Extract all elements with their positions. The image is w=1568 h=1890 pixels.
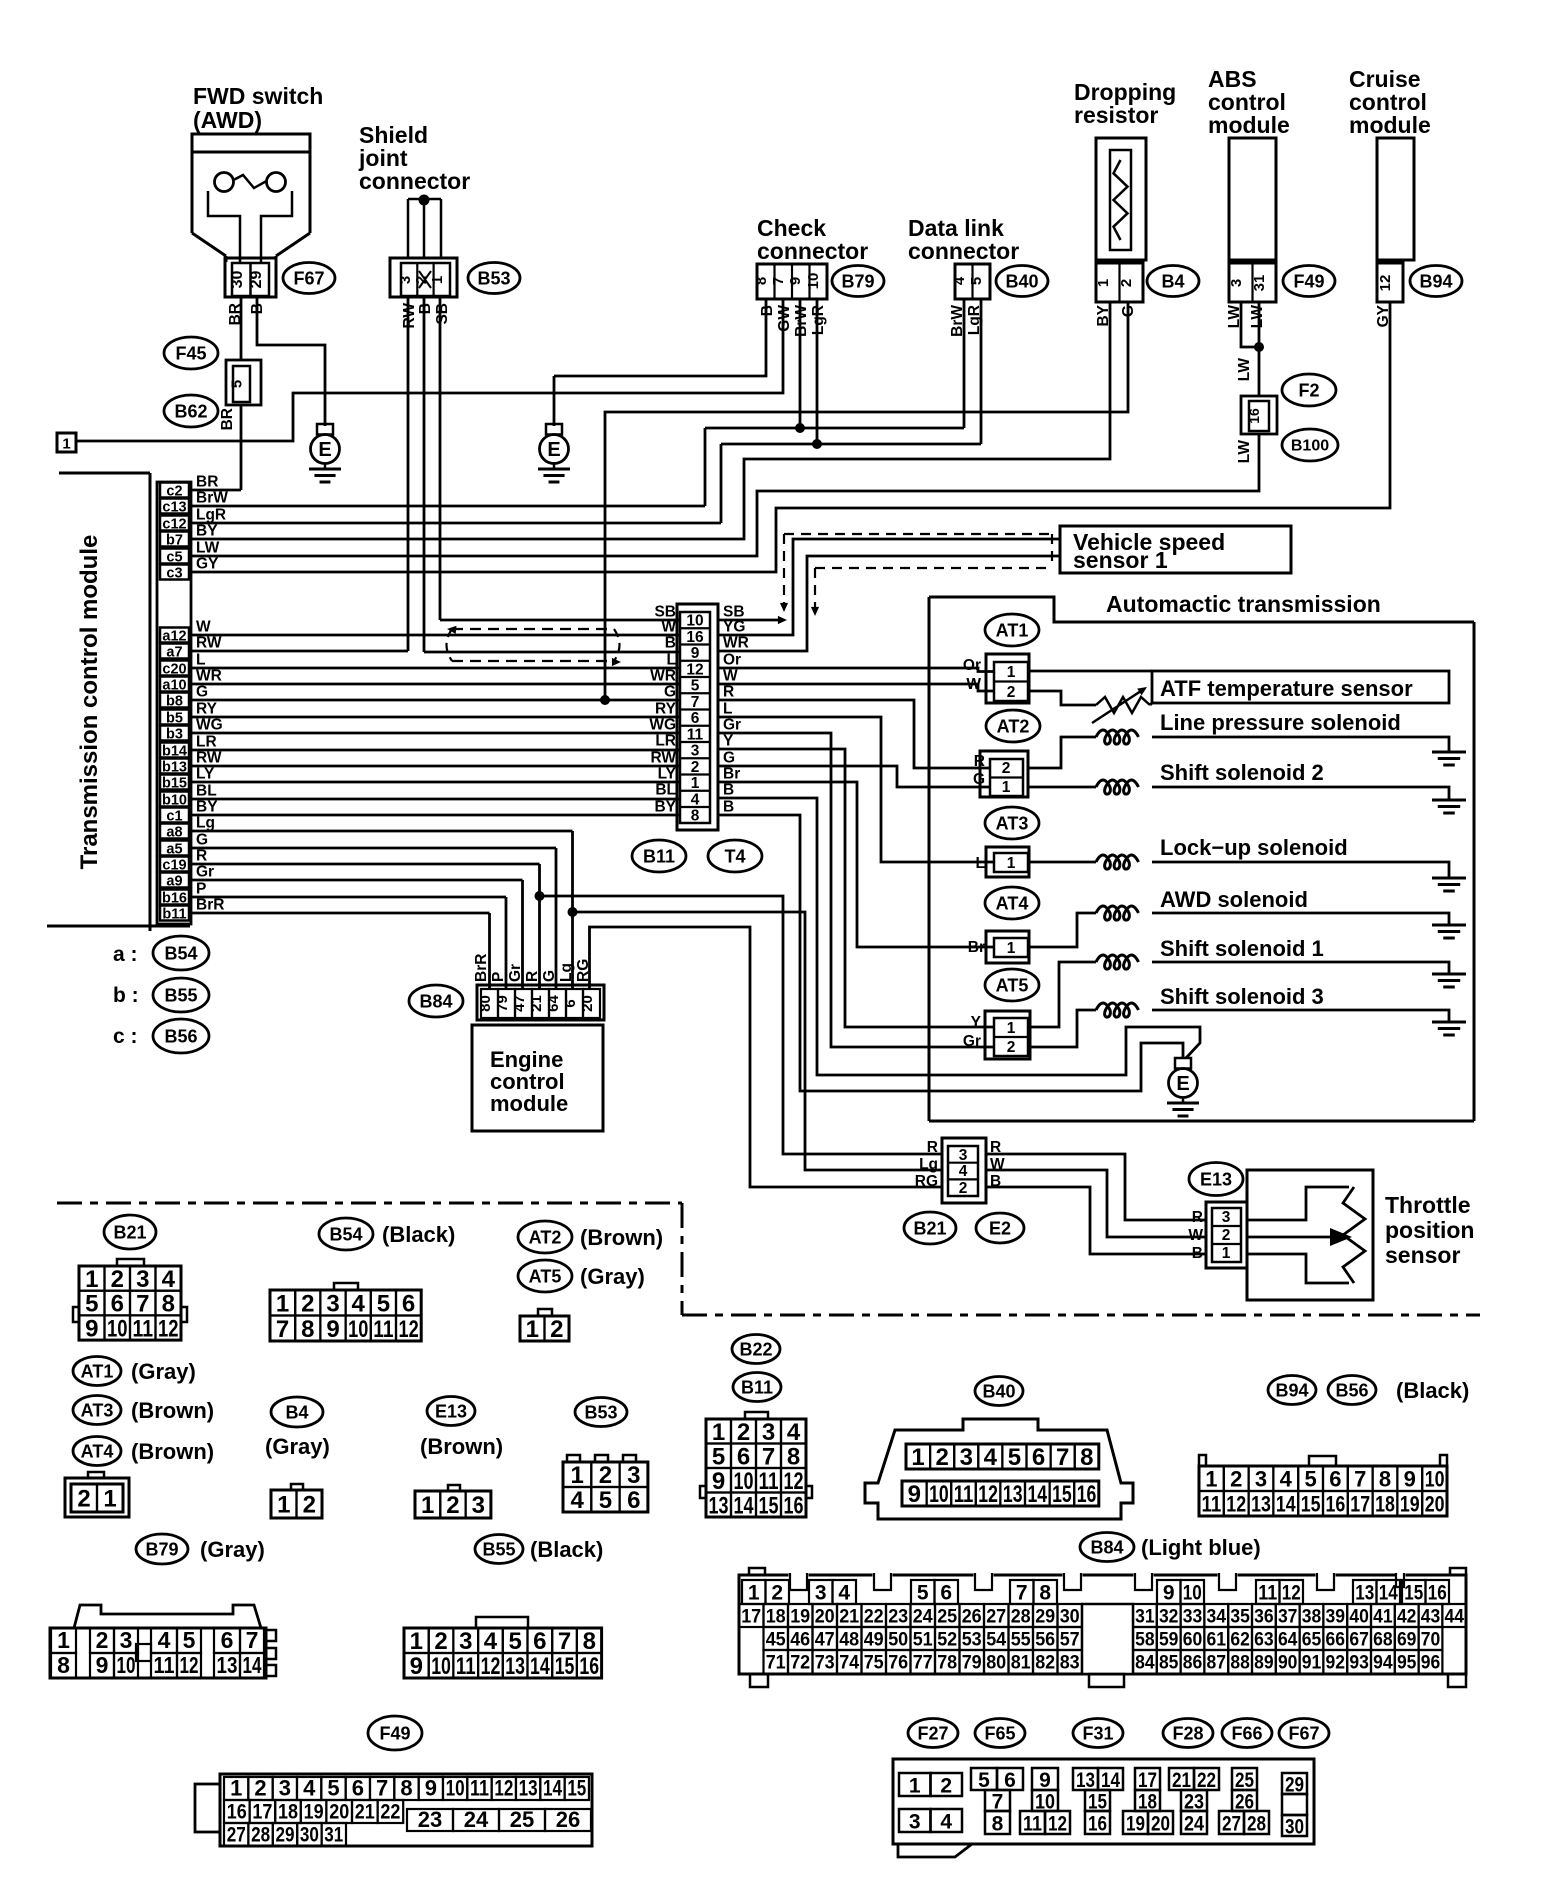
svg-text:14: 14 (243, 1652, 262, 1678)
svg-text:57: 57 (1060, 1630, 1080, 1651)
svg-text:3: 3 (459, 1628, 472, 1655)
svg-text:94: 94 (1373, 1653, 1393, 1674)
svg-text:93: 93 (1349, 1653, 1369, 1674)
svg-text:(Gray): (Gray) (580, 1264, 645, 1289)
svg-text:46: 46 (790, 1630, 810, 1651)
svg-text:4: 4 (570, 1487, 584, 1514)
svg-text:1: 1 (103, 1486, 116, 1513)
svg-text:Shift solenoid 2: Shift solenoid 2 (1160, 760, 1324, 785)
svg-text:55: 55 (1011, 1630, 1031, 1651)
svg-text:W: W (661, 619, 676, 636)
svg-text:1: 1 (570, 1462, 583, 1489)
svg-text:6: 6 (111, 1291, 124, 1318)
svg-text:6: 6 (1032, 1444, 1045, 1471)
svg-text:LgR: LgR (810, 305, 827, 335)
svg-text:1: 1 (909, 1775, 921, 1798)
svg-text:connector: connector (359, 168, 470, 194)
svg-text:11: 11 (954, 1481, 974, 1508)
svg-text:LW: LW (1236, 440, 1253, 464)
svg-text:AT1: AT1 (81, 1361, 114, 1381)
svg-text:12: 12 (1377, 275, 1394, 292)
svg-text:27: 27 (986, 1607, 1006, 1628)
svg-text:80: 80 (477, 995, 494, 1012)
svg-text:F49: F49 (379, 1723, 410, 1743)
svg-text:B4: B4 (285, 1402, 308, 1422)
svg-text:19: 19 (1400, 1491, 1420, 1516)
svg-text:8: 8 (1039, 1582, 1051, 1605)
svg-text:RY: RY (655, 701, 677, 718)
svg-text:c13: c13 (162, 500, 186, 516)
svg-text:20: 20 (815, 1607, 835, 1628)
svg-text:29: 29 (276, 1824, 295, 1847)
svg-text:G: G (973, 771, 985, 788)
svg-text:a10: a10 (162, 678, 186, 694)
svg-text:16: 16 (1246, 408, 1262, 424)
svg-text:F65: F65 (984, 1723, 1015, 1743)
svg-text:13: 13 (1355, 1582, 1374, 1605)
svg-text:W: W (1188, 1227, 1203, 1244)
svg-text:47: 47 (815, 1630, 835, 1651)
svg-text:(Gray): (Gray) (265, 1434, 330, 1459)
svg-text:11: 11 (470, 1776, 489, 1801)
svg-text:29: 29 (1035, 1607, 1055, 1628)
svg-text:P: P (490, 972, 507, 982)
svg-text:B84: B84 (419, 991, 452, 1011)
svg-text:15: 15 (1301, 1491, 1321, 1516)
svg-text:20: 20 (1425, 1491, 1445, 1516)
svg-text:a9: a9 (166, 874, 182, 890)
svg-text:B21: B21 (113, 1222, 146, 1242)
svg-text:4: 4 (838, 1582, 850, 1605)
svg-text:11: 11 (154, 1652, 175, 1678)
svg-text:connector: connector (757, 238, 868, 264)
svg-text:2: 2 (1007, 684, 1016, 701)
svg-text:B53: B53 (584, 1402, 617, 1422)
svg-text:(Gray): (Gray) (131, 1359, 196, 1384)
svg-text:F67: F67 (1288, 1723, 1319, 1743)
svg-text:12: 12 (481, 1653, 501, 1680)
svg-text:11: 11 (1023, 1813, 1042, 1836)
svg-text:B56: B56 (1335, 1380, 1368, 1400)
svg-text:BY: BY (196, 523, 218, 540)
svg-text:BR: BR (219, 408, 236, 430)
svg-text:2: 2 (550, 1316, 563, 1343)
svg-text:1: 1 (1205, 1466, 1217, 1491)
svg-text:70: 70 (1421, 1630, 1441, 1651)
svg-text:E13: E13 (435, 1401, 467, 1421)
svg-text:47: 47 (511, 995, 528, 1012)
svg-text:65: 65 (1302, 1630, 1322, 1651)
svg-text:1: 1 (712, 1419, 725, 1446)
svg-text:1: 1 (421, 1492, 434, 1519)
svg-text:B54: B54 (164, 943, 197, 963)
svg-text:B62: B62 (174, 401, 207, 421)
svg-text:a8: a8 (166, 825, 182, 841)
svg-text:a12: a12 (162, 629, 186, 645)
svg-text:87: 87 (1207, 1653, 1227, 1674)
svg-text:RW: RW (196, 750, 222, 767)
svg-text:68: 68 (1373, 1630, 1393, 1651)
svg-text:14: 14 (734, 1492, 754, 1519)
svg-text:21: 21 (1172, 1769, 1191, 1792)
svg-text:23: 23 (418, 1807, 442, 1832)
svg-text:17: 17 (1350, 1491, 1370, 1516)
svg-text:86: 86 (1183, 1653, 1203, 1674)
svg-text:90: 90 (1278, 1653, 1298, 1674)
svg-text:9: 9 (1039, 1769, 1051, 1792)
svg-text:31: 31 (1251, 275, 1268, 292)
svg-text:4: 4 (787, 1419, 801, 1446)
svg-text:6: 6 (940, 1582, 952, 1605)
svg-text:21: 21 (528, 995, 545, 1012)
svg-text:5: 5 (968, 277, 985, 285)
svg-text:15: 15 (1404, 1582, 1423, 1605)
svg-text:E2: E2 (989, 1218, 1011, 1238)
svg-text:T4: T4 (724, 846, 745, 866)
svg-text:13: 13 (519, 1776, 538, 1801)
svg-text:2: 2 (96, 1627, 109, 1653)
svg-text:4: 4 (162, 1266, 176, 1293)
svg-text:1: 1 (276, 1290, 289, 1317)
svg-text:16: 16 (227, 1801, 247, 1824)
svg-text:B55: B55 (482, 1539, 515, 1559)
svg-text:(Black): (Black) (1396, 1378, 1469, 1403)
svg-text:SB: SB (434, 303, 451, 325)
svg-text:B54: B54 (329, 1224, 362, 1244)
svg-text:2: 2 (1002, 760, 1011, 777)
svg-text:7: 7 (276, 1316, 289, 1343)
svg-text:25: 25 (1235, 1769, 1254, 1792)
svg-text:20: 20 (329, 1801, 349, 1824)
svg-text:21: 21 (839, 1607, 859, 1628)
svg-text:1: 1 (230, 1776, 242, 1801)
svg-text:8: 8 (1379, 1466, 1391, 1491)
svg-text:F66: F66 (1231, 1723, 1262, 1743)
svg-text:(Brown): (Brown) (131, 1439, 214, 1464)
svg-text:c19: c19 (162, 858, 186, 874)
svg-text:4: 4 (484, 1628, 498, 1655)
svg-text:72: 72 (790, 1653, 810, 1674)
svg-text:2: 2 (303, 1492, 316, 1519)
svg-text:BrW: BrW (196, 490, 228, 507)
svg-text:9: 9 (410, 1653, 423, 1680)
svg-text:LW: LW (1236, 358, 1253, 382)
svg-text:F27: F27 (917, 1723, 948, 1743)
svg-text:5: 5 (377, 1290, 390, 1317)
svg-text:LR: LR (196, 734, 217, 751)
svg-text:67: 67 (1349, 1630, 1369, 1651)
svg-text:20: 20 (579, 995, 596, 1012)
svg-text:79: 79 (494, 995, 511, 1012)
svg-text:9: 9 (712, 1468, 725, 1495)
svg-text:(Black): (Black) (530, 1537, 603, 1562)
svg-text:Automactic transmission: Automactic transmission (1106, 591, 1381, 617)
svg-text:3: 3 (960, 1444, 973, 1471)
svg-text:10: 10 (117, 1652, 136, 1678)
svg-text:c5: c5 (166, 550, 182, 566)
svg-text:RW: RW (196, 635, 222, 652)
svg-text:64: 64 (1278, 1630, 1298, 1651)
svg-text:B79: B79 (145, 1539, 178, 1559)
svg-text:F28: F28 (1172, 1723, 1203, 1743)
svg-text:18: 18 (278, 1801, 298, 1824)
svg-text:37: 37 (1278, 1607, 1298, 1628)
svg-text:5: 5 (508, 1628, 521, 1655)
svg-text:53: 53 (962, 1630, 982, 1651)
svg-text:71: 71 (766, 1653, 786, 1674)
svg-text:28: 28 (1247, 1813, 1266, 1836)
svg-text:Throttle: Throttle (1385, 1192, 1471, 1218)
svg-text:43: 43 (1421, 1607, 1441, 1628)
svg-text:6: 6 (737, 1443, 750, 1470)
svg-text:3: 3 (627, 1462, 640, 1489)
svg-text:96: 96 (1421, 1653, 1441, 1674)
svg-text:85: 85 (1159, 1653, 1179, 1674)
svg-text:9: 9 (908, 1481, 921, 1508)
svg-text:a7: a7 (166, 645, 182, 661)
svg-text:2: 2 (254, 1776, 266, 1801)
svg-text:44: 44 (1445, 1607, 1465, 1628)
svg-text:54: 54 (986, 1630, 1006, 1651)
svg-text:8: 8 (301, 1316, 314, 1343)
svg-text:6: 6 (627, 1487, 640, 1514)
svg-text:22: 22 (380, 1801, 400, 1824)
svg-text:19: 19 (790, 1607, 810, 1628)
svg-text:8: 8 (1080, 1444, 1093, 1471)
svg-text:3: 3 (120, 1627, 133, 1653)
svg-text:15: 15 (567, 1776, 586, 1801)
svg-text:9: 9 (326, 1316, 339, 1343)
svg-text:75: 75 (864, 1653, 884, 1674)
svg-text:49: 49 (864, 1630, 884, 1651)
svg-text:BL: BL (655, 782, 676, 799)
svg-text:1: 1 (62, 436, 70, 453)
svg-text:G: G (196, 832, 208, 849)
svg-text:12: 12 (494, 1776, 513, 1801)
svg-text:WR: WR (650, 668, 676, 685)
svg-text:B53: B53 (477, 268, 510, 288)
svg-text:module: module (1349, 112, 1431, 138)
svg-text:5: 5 (229, 380, 246, 388)
svg-text:69: 69 (1397, 1630, 1417, 1651)
svg-text:91: 91 (1302, 1653, 1322, 1674)
svg-text:30: 30 (300, 1824, 319, 1847)
svg-text:9: 9 (96, 1652, 109, 1678)
svg-text:a :: a : (113, 943, 138, 966)
svg-text:BrW: BrW (793, 305, 810, 337)
svg-text:80: 80 (986, 1653, 1006, 1674)
svg-text:LgR: LgR (196, 507, 226, 524)
svg-text:12: 12 (784, 1468, 804, 1495)
svg-text:95: 95 (1397, 1653, 1417, 1674)
svg-text:Y: Y (971, 1014, 982, 1031)
svg-text:B: B (723, 782, 734, 799)
svg-text:R: R (723, 684, 734, 701)
svg-text:9: 9 (1163, 1582, 1175, 1605)
svg-text:15: 15 (555, 1653, 575, 1680)
svg-text:c20: c20 (162, 662, 186, 678)
svg-text:F67: F67 (293, 268, 324, 288)
svg-text:12: 12 (1048, 1813, 1067, 1836)
svg-text:76: 76 (888, 1653, 908, 1674)
svg-text:61: 61 (1207, 1630, 1227, 1651)
svg-text:3: 3 (136, 1266, 149, 1293)
svg-text:3: 3 (472, 1492, 485, 1519)
svg-text:AT4: AT4 (81, 1441, 114, 1461)
svg-text:R: R (196, 848, 207, 865)
svg-text:1: 1 (410, 1628, 423, 1655)
svg-text:16: 16 (579, 1653, 599, 1680)
svg-text:11: 11 (456, 1653, 476, 1680)
svg-text:38: 38 (1302, 1607, 1322, 1628)
svg-text:BrR: BrR (196, 897, 224, 914)
svg-text:22: 22 (1197, 1769, 1216, 1792)
svg-text:14: 14 (530, 1653, 550, 1680)
svg-text:30: 30 (229, 271, 246, 289)
svg-text:3: 3 (691, 743, 700, 760)
svg-text:8: 8 (583, 1628, 596, 1655)
svg-text:B: B (1192, 1245, 1203, 1262)
svg-text:62: 62 (1230, 1630, 1250, 1651)
svg-text:2: 2 (940, 1775, 952, 1798)
svg-text:3: 3 (815, 1582, 827, 1605)
svg-text:64: 64 (545, 995, 562, 1012)
svg-text:B4: B4 (1161, 271, 1184, 291)
svg-text:B22: B22 (739, 1339, 772, 1359)
svg-text:3: 3 (959, 1147, 968, 1164)
svg-text:88: 88 (1230, 1653, 1250, 1674)
svg-text:7: 7 (770, 277, 787, 285)
svg-text:(Brown): (Brown) (131, 1398, 214, 1423)
svg-text:B40: B40 (1005, 271, 1038, 291)
svg-text:26: 26 (962, 1607, 982, 1628)
svg-text:52: 52 (937, 1630, 957, 1651)
svg-text:sensor 1: sensor 1 (1073, 547, 1168, 573)
svg-text:1: 1 (1007, 664, 1016, 681)
svg-text:14: 14 (1028, 1481, 1048, 1508)
svg-text:2: 2 (434, 1628, 447, 1655)
svg-text:19: 19 (1126, 1813, 1145, 1836)
svg-text:1: 1 (1222, 1245, 1231, 1262)
svg-text:28: 28 (251, 1824, 270, 1847)
svg-text:ATF temperature sensor: ATF temperature sensor (1160, 676, 1413, 701)
svg-text:1: 1 (429, 276, 446, 284)
svg-text:RG: RG (915, 1173, 938, 1190)
svg-text:12: 12 (180, 1652, 199, 1678)
svg-text:28: 28 (1011, 1607, 1031, 1628)
svg-text:10: 10 (431, 1653, 451, 1680)
svg-text:5: 5 (183, 1627, 196, 1653)
svg-text:30: 30 (1060, 1607, 1080, 1628)
svg-text:b3: b3 (166, 727, 183, 743)
svg-text:5: 5 (327, 1776, 339, 1801)
svg-text:13: 13 (505, 1653, 525, 1680)
svg-text:12: 12 (399, 1316, 419, 1343)
svg-text:33: 33 (1183, 1607, 1203, 1628)
svg-text:b :: b : (113, 984, 139, 1007)
svg-text:2: 2 (1222, 1227, 1231, 1244)
svg-text:2: 2 (691, 759, 700, 776)
svg-text:Y: Y (723, 733, 734, 750)
svg-text:84: 84 (1135, 1653, 1155, 1674)
svg-text:12: 12 (1282, 1582, 1301, 1605)
svg-text:7: 7 (1354, 1466, 1366, 1491)
svg-text:BY: BY (196, 799, 218, 816)
svg-text:48: 48 (839, 1630, 859, 1651)
svg-text:63: 63 (1254, 1630, 1274, 1651)
svg-text:position: position (1385, 1217, 1474, 1243)
svg-text:13: 13 (1003, 1481, 1023, 1508)
svg-text:12: 12 (686, 661, 703, 678)
svg-text:14: 14 (543, 1776, 563, 1801)
svg-text:a5: a5 (166, 842, 182, 858)
svg-text:connector: connector (908, 238, 1019, 264)
svg-text:GW: GW (776, 305, 793, 332)
svg-text:Lg: Lg (196, 815, 215, 832)
svg-text:Lock−up solenoid: Lock−up solenoid (1160, 835, 1348, 860)
svg-text:b7: b7 (166, 533, 183, 549)
svg-text:B55: B55 (164, 985, 197, 1005)
svg-text:WG: WG (649, 717, 676, 734)
svg-text:F31: F31 (1082, 1723, 1113, 1743)
svg-text:R: R (927, 1139, 938, 1156)
svg-text:10: 10 (686, 613, 703, 630)
svg-text:11: 11 (687, 726, 704, 743)
svg-text:89: 89 (1254, 1653, 1274, 1674)
svg-text:6: 6 (221, 1627, 234, 1653)
svg-text:b8: b8 (166, 694, 183, 710)
svg-text:7: 7 (558, 1628, 571, 1655)
svg-text:50: 50 (888, 1630, 908, 1651)
svg-text:E13: E13 (1200, 1169, 1232, 1189)
svg-text:W: W (196, 619, 211, 636)
svg-text:AT1: AT1 (996, 620, 1029, 640)
svg-text:9: 9 (787, 277, 804, 285)
svg-text:1: 1 (1007, 940, 1016, 957)
svg-text:2: 2 (446, 1492, 459, 1519)
svg-text:2: 2 (959, 1180, 968, 1197)
svg-text:27: 27 (1222, 1813, 1241, 1836)
svg-text:17: 17 (741, 1607, 761, 1628)
svg-text:LY: LY (658, 766, 677, 783)
svg-text:LY: LY (196, 766, 215, 783)
svg-text:9: 9 (425, 1776, 437, 1801)
svg-text:9: 9 (691, 645, 700, 662)
svg-text:25: 25 (937, 1607, 957, 1628)
svg-text:4: 4 (1280, 1466, 1293, 1491)
svg-text:22: 22 (864, 1607, 884, 1628)
svg-text:7: 7 (762, 1443, 775, 1470)
svg-text:c1: c1 (166, 809, 182, 825)
svg-text:3: 3 (762, 1419, 775, 1446)
svg-text:26: 26 (556, 1807, 580, 1832)
svg-text:8: 8 (162, 1291, 175, 1318)
svg-text:3: 3 (909, 1811, 921, 1834)
svg-text:2: 2 (935, 1444, 948, 1471)
svg-text:10: 10 (348, 1316, 368, 1343)
svg-text:11: 11 (1258, 1582, 1277, 1605)
svg-text:AWD solenoid: AWD solenoid (1160, 887, 1308, 912)
svg-text:AT2: AT2 (997, 716, 1030, 736)
svg-text:5: 5 (978, 1769, 990, 1792)
svg-text:6: 6 (352, 1776, 364, 1801)
svg-text:8: 8 (57, 1652, 70, 1678)
svg-text:18: 18 (1375, 1491, 1395, 1516)
svg-text:24: 24 (1184, 1813, 1204, 1836)
svg-text:(Light blue): (Light blue) (1141, 1535, 1261, 1560)
svg-text:BrR: BrR (473, 954, 490, 982)
svg-text:77: 77 (913, 1653, 933, 1674)
